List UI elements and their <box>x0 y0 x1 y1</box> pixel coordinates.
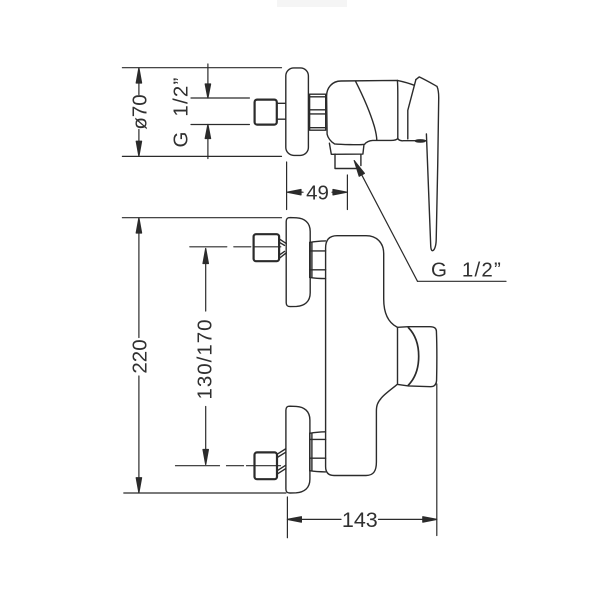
leader arrow to outlet spout <box>354 161 506 282</box>
dim 220 extension lines <box>122 217 281 219</box>
bottom inlet hex nut (front view) <box>255 452 278 479</box>
inlet hex nut end-on (side view) <box>255 100 277 125</box>
dim ø70 line with arrows <box>136 68 141 156</box>
svg-text:143: 143 <box>342 508 378 532</box>
dim 143 line with arrows <box>287 517 436 522</box>
svg-text:220: 220 <box>128 339 151 373</box>
dim G 1/2 (top) line with arrows <box>205 64 210 159</box>
dim ø70 extension lines <box>122 67 281 69</box>
underside line of body/hub (side view) <box>398 138 427 140</box>
svg-text:ø70: ø70 <box>128 94 151 129</box>
outlet spout G 1/2 (side view) <box>335 154 361 168</box>
top escutcheon (front view) <box>286 218 310 307</box>
valve body (side view) <box>327 80 398 144</box>
svg-text:49: 49 <box>306 181 329 204</box>
wall nut (side view, between flange and body) <box>310 94 326 130</box>
top wall adapter (front view) <box>310 241 326 279</box>
lens detail under hub (side view) <box>415 140 425 142</box>
top inlet centerline <box>190 246 281 248</box>
handle hub (side view) <box>408 80 416 139</box>
bottom escutcheon (front view) <box>286 406 310 493</box>
svg-text:130/170: 130/170 <box>194 318 217 399</box>
body front-face contour line (side view) <box>356 81 377 140</box>
dim 130/170 line with arrows <box>203 249 208 465</box>
dim G 1/2 (top) extension ticks <box>191 97 249 99</box>
body top edge behind handle <box>397 80 414 85</box>
bottom inlet centerline <box>176 465 282 467</box>
handle knob (front view) <box>398 327 437 387</box>
dim 220 line with arrows <box>136 218 141 493</box>
svg-text:G 1/2”: G 1/2” <box>431 258 502 281</box>
escutcheon flange (side view) <box>286 68 309 155</box>
dim 49 extension lines <box>286 162 288 210</box>
body bottom skirt (side view) <box>329 143 364 154</box>
dim 49 line with arrows <box>287 190 347 195</box>
faint watermark remnant top <box>277 0 347 7</box>
faucet body (front view) <box>326 236 398 476</box>
top inlet hex nut (front view) <box>254 234 280 261</box>
bottom wall adapter (front view) <box>310 432 326 472</box>
handle lever blade (side view) <box>416 77 439 251</box>
inlet pipe stub (side view) <box>277 103 286 119</box>
top eccentric union pipe (front view) <box>279 239 286 259</box>
dim 143 extension lines <box>286 497 288 538</box>
svg-text:G 1/2”: G 1/2” <box>170 76 193 147</box>
bottom eccentric union pipe (front view) <box>277 449 286 474</box>
